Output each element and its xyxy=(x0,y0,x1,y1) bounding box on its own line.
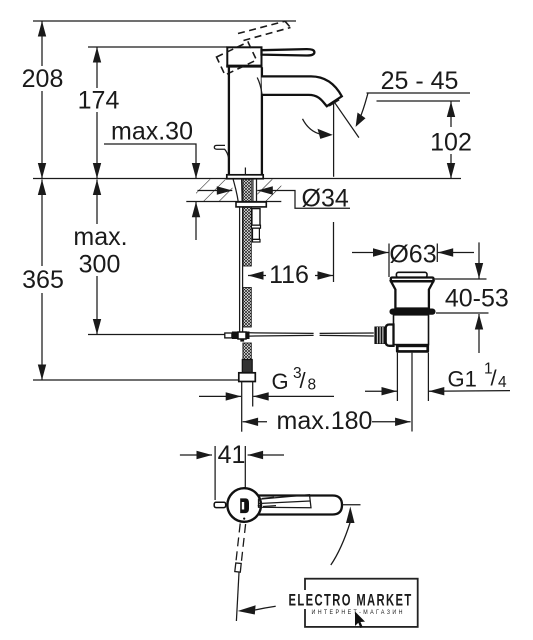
svg-text:116: 116 xyxy=(269,261,309,289)
side port xyxy=(386,325,394,346)
extension line right of handle xyxy=(342,504,360,506)
tailpipe center seam xyxy=(411,353,413,432)
faucet body tube xyxy=(228,67,230,175)
svg-text:8: 8 xyxy=(308,377,317,394)
svg-text:208: 208 xyxy=(22,65,64,93)
hose end fitting xyxy=(242,360,252,373)
coupling collar xyxy=(396,344,429,352)
dimension max.300 vertical xyxy=(96,180,98,225)
svg-text:max.: max. xyxy=(73,223,127,251)
braided hose upper xyxy=(243,179,251,266)
knurled adjuster knob xyxy=(374,327,385,345)
dimension 208 vertical xyxy=(41,21,43,66)
dimension 174 vertical xyxy=(96,47,98,88)
supply tube xyxy=(241,382,243,432)
svg-text:ELECTRO MARKET: ELECTRO MARKET xyxy=(289,590,413,609)
svg-text:max.30: max.30 xyxy=(111,118,193,146)
spout direction dashed (top view) xyxy=(235,524,246,573)
extension line top (208 reference) xyxy=(33,20,296,22)
o-ring seal xyxy=(390,309,436,315)
dimension 102 xyxy=(450,102,452,128)
body circle (top view) xyxy=(227,488,261,522)
dimension 41 xyxy=(214,446,216,500)
pop-up plug cap xyxy=(396,272,427,277)
extension line 365 bottom xyxy=(33,379,244,381)
svg-text:365: 365 xyxy=(22,266,64,294)
countertop deck line xyxy=(33,178,461,180)
lever (top view, perspective) xyxy=(259,495,312,508)
handle capsule (top view) xyxy=(258,496,342,515)
spout root fillet xyxy=(257,78,262,95)
extension line max.300 bottom xyxy=(88,334,226,336)
extension line 174 reference xyxy=(88,46,227,48)
svg-text:174: 174 xyxy=(78,87,120,115)
horizontal pop-up linkage arm xyxy=(250,332,314,335)
dashed handle rotated position xyxy=(217,21,291,75)
svg-text:102: 102 xyxy=(430,129,472,157)
svg-text:300: 300 xyxy=(79,251,121,279)
rotation arc arrow (top view) xyxy=(346,507,355,524)
deck bottom line xyxy=(186,201,281,203)
water stream line xyxy=(333,102,335,177)
cartridge cap xyxy=(227,47,261,66)
svg-text:Ø34: Ø34 xyxy=(302,185,349,213)
spout reference line + arrow xyxy=(236,573,239,622)
svg-text:/: / xyxy=(491,366,498,391)
spout outlet face inner lip xyxy=(329,100,339,106)
svg-text:25 - 45: 25 - 45 xyxy=(381,67,459,95)
keyhole mark xyxy=(240,498,249,513)
tailpipe xyxy=(396,353,398,401)
dimension 365 vertical xyxy=(41,180,43,267)
deck hatch left of hole xyxy=(196,179,233,201)
drain body xyxy=(394,315,429,345)
cursor xyxy=(355,612,365,629)
rotation arc arrow xyxy=(303,119,320,134)
deck hatch right of hole xyxy=(257,179,281,201)
pop-up rod curving through deck xyxy=(233,180,239,208)
threaded shank lines xyxy=(252,179,254,201)
supply connector stepped fitting xyxy=(252,209,260,226)
drain flange xyxy=(391,278,434,282)
svg-text:G: G xyxy=(272,369,289,394)
braided hose lower segment xyxy=(243,288,251,328)
svg-text:/: / xyxy=(300,368,307,393)
svg-text:40-53: 40-53 xyxy=(445,284,509,312)
G3/8 nut xyxy=(239,373,256,382)
rod clamp assembly xyxy=(225,333,232,338)
svg-text:4: 4 xyxy=(498,374,507,391)
handle lever xyxy=(262,49,315,55)
detail dots xyxy=(258,505,260,507)
svg-text:41: 41 xyxy=(218,441,246,469)
spout xyxy=(262,76,342,106)
braided hose below clamp xyxy=(243,343,251,360)
body center seam xyxy=(244,168,246,175)
svg-text:G1: G1 xyxy=(448,366,477,391)
svg-text:Ø63: Ø63 xyxy=(389,241,436,269)
pop-up rod vertical xyxy=(239,207,241,332)
body base flange xyxy=(227,175,263,179)
102 extension line xyxy=(377,100,461,102)
pop-up rod knob on body xyxy=(214,145,228,157)
svg-text:max.180: max.180 xyxy=(277,407,373,435)
adjustable angle diagonal xyxy=(335,103,359,138)
left tab xyxy=(214,502,226,507)
mounting nut xyxy=(236,202,266,207)
